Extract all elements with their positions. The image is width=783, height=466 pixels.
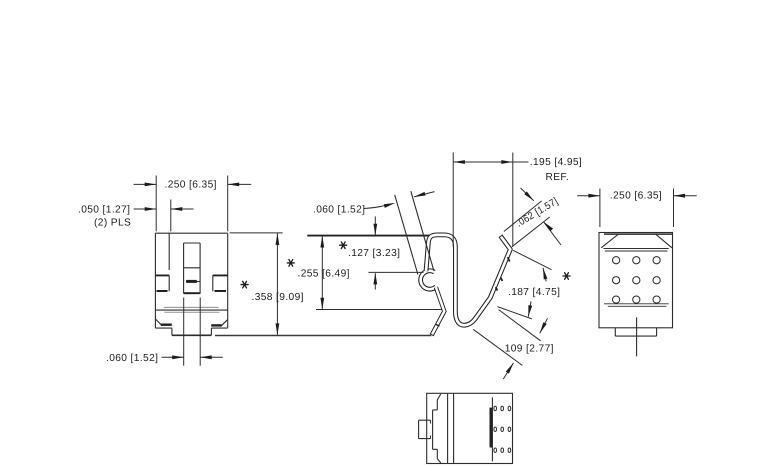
bottom view outline: [427, 393, 513, 463]
.062 ext line lower: [512, 217, 550, 247]
front view contact dimple blob: [186, 280, 197, 283]
svg-text:.060 [1.52]: .060 [1.52]: [106, 353, 158, 364]
front view bottom tab edge: [172, 334, 212, 336]
.060 top leader: [364, 205, 386, 208]
front view chamfer dark wedge right: [211, 324, 221, 326]
front view body outline: [155, 233, 227, 328]
back view lower double lines: [604, 304, 669, 307]
back view dimension: [577, 189, 697, 228]
front view notch dark bottoms: [157, 290, 227, 292]
bottom view fold lines: [448, 393, 454, 463]
front view notch verticals: [169, 275, 213, 291]
svg-text:.187 [4.75]: .187 [4.75]: [508, 287, 560, 298]
back view chamfer right: [656, 234, 672, 248]
bottom view dimple ovals 3x3: [494, 406, 511, 452]
.195 ext line left: [452, 153, 454, 247]
front view bottom chamfer right: [221, 320, 228, 326]
front view contact dimple: [186, 281, 200, 283]
.109 arrow tails: [503, 318, 547, 379]
svg-text:.250 [6.35]: .250 [6.35]: [610, 191, 662, 202]
.187 arrow tails: [528, 268, 546, 317]
flare tip cap: [499, 235, 503, 238]
.050 dim arrow tails: [134, 208, 194, 210]
tail tick mark: [436, 324, 440, 326]
.250 dim arrow tails: [134, 183, 252, 185]
.195 ext line right: [512, 153, 514, 247]
front view gray line upper: [164, 306, 219, 308]
front view black mid line: [155, 309, 227, 311]
ext lines back view: [600, 189, 674, 228]
blade arm line left: [395, 195, 418, 275]
ext line left of .250 dim: [155, 176, 157, 232]
svg-text:.358 [9.09]: .358 [9.09]: [252, 292, 304, 303]
top edge extension right: [230, 232, 283, 234]
tail tip cap: [430, 334, 434, 336]
.062 ext line upper: [504, 201, 542, 232]
bottom view right thin line: [491, 397, 493, 461]
.255 dim line: [321, 236, 323, 309]
svg-text:.255 [6.49]: .255 [6.49]: [298, 268, 350, 279]
bottom view dark bar: [489, 408, 492, 448]
arrow tails back view: [577, 195, 697, 197]
asterisk for .127: [340, 242, 347, 249]
.127 top arrow tail: [374, 216, 376, 234]
front view center slot: [184, 243, 201, 294]
arrowheads side view: [320, 236, 324, 248]
baseline seating plane: [215, 335, 431, 337]
back view rivet holes 3x3: [613, 257, 661, 304]
reference line top (.255/.127 upper): [307, 235, 436, 237]
svg-text:(2) PLS: (2) PLS: [94, 217, 131, 228]
ext line right of .250 dim: [227, 176, 229, 232]
arm bend tick marks: [496, 257, 510, 290]
front view chamfer dark wedge left: [161, 324, 172, 326]
bottom view left tab: [419, 420, 431, 438]
spring wire: main loop, right leg, bottom bend, arm, flare: [426, 235, 510, 325]
front view gray line lower: [164, 311, 219, 313]
back view upper double lines: [604, 249, 669, 252]
.187 leader A from knee: [513, 250, 552, 269]
.060 bottom arrow tails: [162, 356, 223, 358]
back view center lead line: [636, 317, 638, 356]
.062 arrow tails: [521, 188, 562, 245]
slot extension lines down: [184, 298, 201, 366]
front view bottom edges: [155, 328, 227, 335]
blade arm line right: [411, 191, 434, 271]
.060 top right arrow tail: [414, 192, 435, 197]
svg-text:.250 [6.35]: .250 [6.35]: [165, 180, 217, 191]
back view outline: [599, 233, 673, 328]
.109 leader D: [499, 310, 541, 341]
spring wire: curl: [421, 271, 436, 289]
svg-text:REF.: REF.: [546, 172, 570, 183]
front view bottom chamfer left: [156, 319, 162, 325]
back view chamfer left: [601, 234, 618, 248]
asterisk for .255: [287, 260, 294, 267]
arrowheads front view dims: [145, 183, 157, 187]
svg-text:.050 [1.27]: .050 [1.27]: [78, 204, 130, 215]
.109 leader E: [473, 329, 522, 365]
svg-text:.127 [3.23]: .127 [3.23]: [348, 248, 400, 259]
reference line lower (.255 bottom): [316, 309, 442, 311]
asterisk for .358: [241, 281, 248, 288]
svg-text:.060 [1.52]: .060 [1.52]: [313, 205, 365, 216]
svg-text:.109 [2.77]: .109 [2.77]: [502, 344, 554, 355]
.127 lower ext line: [369, 271, 424, 273]
front view side notch lines: [155, 274, 227, 276]
spring wire: tail to baseline: [432, 287, 444, 335]
.127 bottom arrow tail: [374, 273, 376, 289]
asterisk for .187: [563, 273, 570, 280]
bottom view inner profile: [433, 394, 441, 463]
ext line for .050 dim: [170, 200, 172, 232]
front view slot dark bottom: [184, 292, 200, 294]
.187 leader B: [497, 307, 531, 319]
back view bottom tab: [615, 328, 656, 336]
.358 dim line: [276, 233, 278, 335]
back view inner top line: [604, 233, 672, 235]
front view inner left vertical: [168, 233, 170, 270]
svg-text:.195 [4.95]: .195 [4.95]: [530, 157, 582, 168]
.195 dim line: [453, 161, 528, 163]
